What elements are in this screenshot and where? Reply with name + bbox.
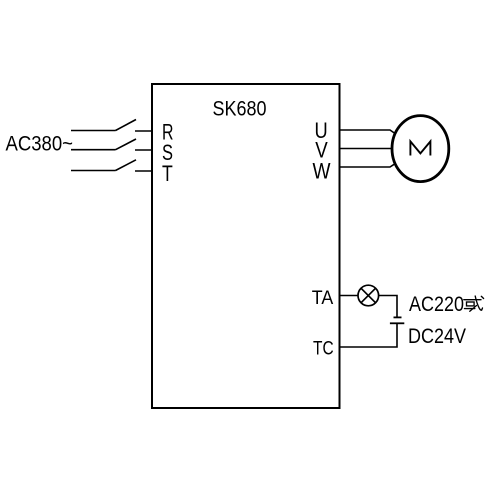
lamp L1 cross <box>361 288 375 302</box>
switch S3 (T phase) <box>71 160 152 171</box>
battery BT1 long plate <box>390 322 404 324</box>
wire W to motor <box>340 164 395 167</box>
svg-text:T: T <box>162 161 173 186</box>
inverter box U1 SK680 <box>152 84 340 408</box>
motor M1 circle <box>392 116 449 182</box>
lamp L1 circle <box>358 285 379 306</box>
battery BT1 short plate <box>394 316 402 318</box>
motor letter M <box>410 141 430 155</box>
svg-text:TA: TA <box>312 288 334 309</box>
label Chinese huo (or) <box>464 296 484 311</box>
wire battery to TC <box>340 323 398 347</box>
switch S1 (R phase) <box>71 120 152 132</box>
svg-text:DC24V: DC24V <box>408 325 466 348</box>
wire V to motor <box>340 148 393 150</box>
svg-text:AC380~: AC380~ <box>6 133 74 156</box>
svg-text:SK680: SK680 <box>213 97 267 120</box>
wire U to motor <box>340 130 395 133</box>
switch S2 (S phase) <box>71 139 152 150</box>
svg-text:AC220: AC220 <box>409 293 464 316</box>
svg-text:TC: TC <box>313 338 334 359</box>
wire lamp to corner <box>379 296 397 318</box>
wire TA to lamp <box>340 295 359 297</box>
svg-text:W: W <box>313 159 331 184</box>
